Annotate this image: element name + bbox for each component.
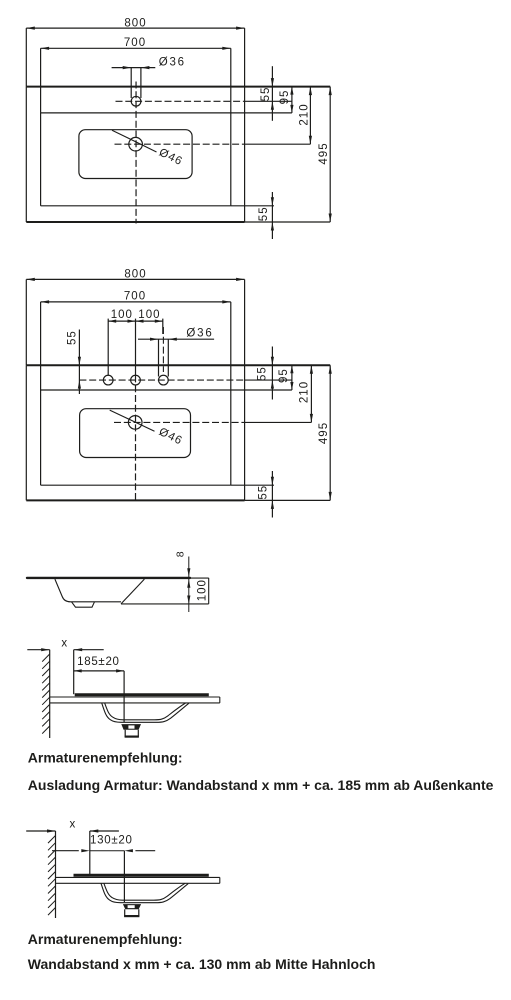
svg-text:95: 95	[279, 90, 291, 105]
svg-text:55: 55	[67, 330, 79, 345]
svg-text:100: 100	[111, 309, 133, 321]
svg-text:800: 800	[124, 17, 146, 29]
svg-text:Wandabstand x mm + ca. 130 mm: Wandabstand x mm + ca. 130 mm ab Mitte H…	[28, 956, 376, 972]
svg-text:55: 55	[260, 87, 272, 102]
svg-text:210: 210	[299, 103, 311, 125]
svg-text:Armaturenempfehlung:: Armaturenempfehlung:	[28, 931, 183, 947]
svg-text:95: 95	[278, 368, 290, 383]
svg-text:55: 55	[256, 366, 268, 381]
svg-text:55: 55	[258, 206, 270, 221]
svg-text:100: 100	[138, 309, 160, 321]
svg-text:700: 700	[124, 37, 146, 49]
svg-text:130±20: 130±20	[90, 835, 133, 847]
svg-text:Ausladung Armatur: Wandabstand: Ausladung Armatur: Wandabstand x mm + ca…	[28, 777, 494, 793]
svg-text:185±20: 185±20	[77, 656, 120, 668]
svg-text:55: 55	[257, 485, 269, 500]
svg-text:210: 210	[299, 381, 311, 403]
svg-text:x: x	[61, 637, 67, 649]
svg-text:8: 8	[175, 550, 187, 557]
svg-text:800: 800	[124, 269, 146, 281]
svg-text:x: x	[70, 819, 76, 831]
svg-text:100: 100	[197, 579, 209, 601]
svg-text:495: 495	[318, 422, 330, 444]
svg-text:Ø36: Ø36	[186, 327, 213, 339]
svg-text:Armaturenempfehlung:: Armaturenempfehlung:	[28, 749, 183, 765]
svg-text:Ø36: Ø36	[159, 56, 186, 68]
svg-text:700: 700	[124, 291, 146, 303]
svg-text:495: 495	[318, 142, 330, 164]
